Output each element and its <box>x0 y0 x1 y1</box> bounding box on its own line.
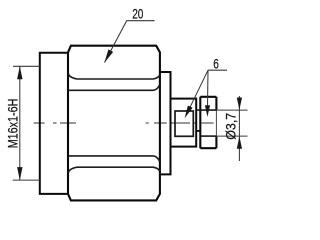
dia3.7 arrow bottom <box>237 136 242 149</box>
M16 arrow up <box>17 66 22 79</box>
end block right edge lower <box>215 136 217 148</box>
dia3.7 arrow top <box>237 98 242 111</box>
bore bottom line <box>201 135 216 137</box>
svg-text:20: 20 <box>132 6 143 22</box>
6 leader 1 <box>190 70 209 108</box>
end block right edge middle thin <box>215 110 217 136</box>
6 arrow 2 <box>205 105 210 117</box>
M16 extension top <box>13 65 40 67</box>
svg-text:M16x1-6H: M16x1-6H <box>5 99 21 149</box>
hex upper facet band line 1 <box>68 73 160 79</box>
bore top extension <box>216 109 247 111</box>
M16 arrow down <box>17 167 22 180</box>
20 leader <box>105 21 155 63</box>
6 leader 2 <box>207 70 210 106</box>
neck top / bore top line <box>196 109 216 111</box>
end block right edge upper <box>215 97 217 110</box>
hex lower facet band line 1 <box>68 167 160 173</box>
left flange washer <box>40 53 68 194</box>
hex lower facet band line 2 <box>68 156 160 162</box>
svg-text:6: 6 <box>213 56 219 72</box>
hex upper facet band line 2 <box>68 85 160 91</box>
neck bottom edge <box>196 130 200 132</box>
M16 extension bottom <box>13 179 40 181</box>
end block outline <box>200 97 216 148</box>
mid block inner rect <box>175 111 193 136</box>
centerline right segment <box>146 122 214 124</box>
svg-text:Ø3,7: Ø3,7 <box>223 113 239 140</box>
6 shelf <box>208 69 227 71</box>
mid block outer <box>171 99 197 147</box>
M16 dimension line <box>19 66 21 180</box>
centerline left segment <box>34 122 76 124</box>
hex body outline <box>68 46 160 201</box>
bore bottom extension <box>216 135 247 137</box>
6 arrow 1 <box>185 106 193 119</box>
20 arrow <box>104 49 113 62</box>
right flange <box>160 72 171 174</box>
dia3.7 dimension line <box>238 96 240 161</box>
